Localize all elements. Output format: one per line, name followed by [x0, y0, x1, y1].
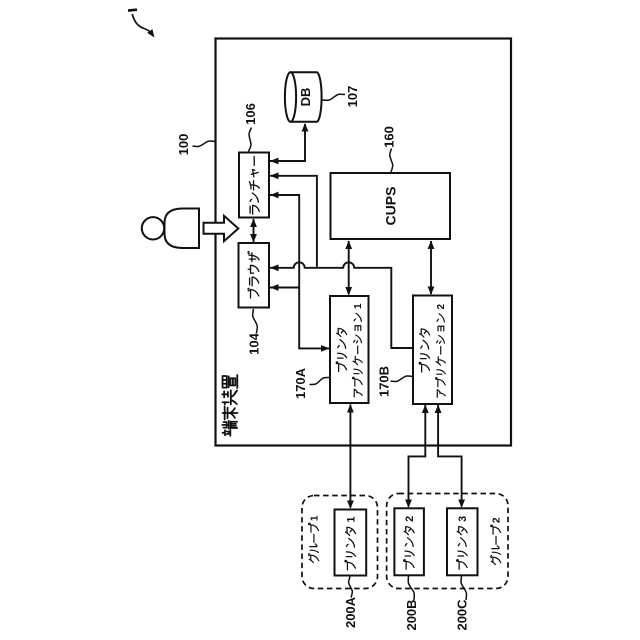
wire launcher-DB	[270, 124, 305, 161]
arrowhead into DB	[302, 123, 309, 132]
wire launcher-browser-app1 net	[270, 195, 329, 348]
svg-text:107: 107	[345, 86, 360, 108]
svg-text:100: 100	[176, 134, 191, 156]
arrowhead into app2 bottom right	[435, 405, 442, 414]
printer app1 line2	[353, 303, 365, 397]
arrowhead into printer1	[347, 501, 354, 510]
svg-text:200B: 200B	[404, 599, 419, 630]
group2 text	[491, 517, 503, 564]
arrowhead into browser from app2 bus	[270, 264, 279, 271]
arrowhead into app1 bottom	[347, 404, 354, 413]
printer app1 line1	[336, 328, 347, 371]
svg-text:1: 1	[345, 516, 357, 522]
label 170B	[391, 376, 413, 382]
arrowhead into app1 top	[345, 287, 352, 296]
launcher text	[249, 157, 259, 215]
printer 1 box 200A	[335, 510, 367, 576]
DB cylinder 107	[291, 72, 322, 122]
user torso	[165, 209, 200, 249]
svg-text:2: 2	[436, 304, 447, 310]
wire app1-printer1	[349, 405, 351, 508]
printer1 text	[345, 516, 357, 569]
terminal device kanji	[222, 375, 237, 436]
svg-text:1: 1	[353, 303, 364, 309]
printer app2 line2	[436, 304, 448, 398]
wire launcher to browser-app2 bus	[270, 176, 317, 267]
wire CUPS-app1 double arrow	[348, 241, 350, 295]
arrowhead into CUPS bottom left	[345, 241, 352, 250]
printer2 text	[404, 516, 416, 569]
svg-text:2: 2	[404, 516, 416, 522]
browser box 104	[239, 243, 270, 308]
arrowhead into launcher from app1 net	[270, 192, 279, 199]
label 200A	[349, 577, 353, 598]
label 107	[323, 94, 346, 100]
printer 2 box 200B	[394, 508, 424, 575]
browser text	[248, 251, 259, 298]
label 200C	[461, 576, 467, 600]
wire CUPS-app2 double arrow	[430, 241, 432, 294]
wire launcher-browser double arrow	[253, 219, 255, 242]
label 104	[253, 309, 258, 333]
arrowhead into printer3	[458, 500, 465, 509]
svg-text:1: 1	[309, 515, 320, 521]
wire branch to browser	[270, 287, 299, 289]
arrowhead into browser top	[250, 234, 257, 243]
arrowhead into app2 top	[428, 287, 435, 296]
terminal device outer box 100	[216, 39, 512, 446]
arrowhead into CUPS bottom right	[428, 241, 435, 250]
arrowhead into printer2	[405, 500, 412, 509]
svg-text:200A: 200A	[343, 596, 358, 628]
figure number 1	[128, 8, 137, 12]
figure pointer arrow	[132, 14, 152, 34]
launcher box 106	[239, 153, 269, 218]
arrowhead into launcher bottom	[250, 219, 257, 228]
printer3 text	[457, 516, 469, 569]
svg-text:CUPS: CUPS	[383, 187, 399, 226]
svg-text:170A: 170A	[293, 367, 308, 399]
svg-text:170B: 170B	[377, 366, 392, 397]
wire app2-printer3	[438, 405, 462, 507]
svg-text:104: 104	[247, 332, 262, 354]
label 170A	[310, 377, 330, 384]
svg-text:160: 160	[382, 126, 397, 148]
svg-text:2: 2	[492, 517, 503, 523]
user head	[142, 217, 164, 239]
svg-text:200C: 200C	[455, 599, 470, 631]
group 2 dashed box	[387, 494, 508, 589]
arrowhead into browser from app1 net	[270, 284, 279, 291]
label 200B	[408, 576, 414, 600]
svg-text:106: 106	[243, 103, 258, 125]
group 1 dashed box	[302, 496, 378, 589]
arrowhead into app2 bottom left	[422, 405, 429, 414]
wire browser-app2 with hops	[270, 262, 412, 348]
group1 text	[308, 515, 320, 562]
printer application 1 box 170A	[330, 296, 369, 403]
svg-text:DB: DB	[298, 88, 313, 107]
label 100	[193, 141, 216, 147]
block arrow user input	[204, 216, 239, 241]
arrowhead into launcher from bus	[270, 172, 279, 179]
arrowhead into app1 left	[321, 345, 330, 352]
printer application 2 box 170B	[413, 296, 452, 405]
arrowhead into launcher from DB line	[270, 158, 279, 165]
printer app2 line1	[419, 329, 430, 372]
wire app2-printer2	[409, 405, 426, 507]
printer 3 box 200C	[447, 508, 478, 575]
CUPS box 160	[331, 173, 451, 239]
label 160	[390, 149, 393, 173]
svg-text:3: 3	[457, 516, 469, 522]
label 106	[249, 128, 252, 152]
